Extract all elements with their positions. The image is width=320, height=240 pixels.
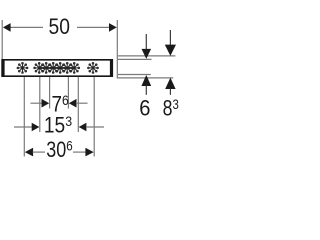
side view: bottom line L4 (8.3 lower reference) <box>118 77 173 79</box>
dimension 50: left extension line <box>1 20 3 59</box>
dimension 6: down arrowhead <box>142 49 152 59</box>
dimension 8.3: down arrowhead <box>165 45 176 56</box>
dimension 7.6: right arrowhead (points left) <box>69 99 77 108</box>
dimension 15.3: left tail line <box>14 126 32 128</box>
dimension 50: right arrowhead <box>109 23 117 32</box>
dimension 50: left arrowhead <box>3 23 11 32</box>
dimension 30.6: line right segment <box>73 151 86 153</box>
dimension 50: right extension line + side view left edge <box>116 20 118 79</box>
dimension 8.3: lower stem <box>169 89 171 95</box>
dimension 6: up arrowhead <box>141 75 151 86</box>
dimension 50: dimension line right segment <box>77 26 110 28</box>
svg-text:50: 50 <box>49 14 70 39</box>
dimension 7.6: left tail line <box>31 102 43 104</box>
perforation snowflakes <box>17 62 99 73</box>
side view: line L2 (6 upper reference) <box>118 58 152 60</box>
side view: top line L1 (8.3 upper reference) <box>118 55 175 57</box>
extension tick t3 (7.6 left) <box>49 77 51 109</box>
dimension 8.3: upper stem <box>169 30 171 45</box>
side view: line L3 (6 lower reference) <box>118 74 151 76</box>
dimension 15.3: right arrowhead (points left) <box>79 123 87 132</box>
svg-text:6: 6 <box>139 95 150 120</box>
dimension 6: upper stem <box>145 34 147 49</box>
extension tick t2 (15.3 left) <box>39 77 41 132</box>
dimension 30.6: right arrowhead (points right) <box>85 148 93 157</box>
dimension 50: dimension line left segment <box>10 26 43 28</box>
extension tick t4 (7.6 right) <box>67 77 69 109</box>
dimension 6: lower stem <box>145 86 147 95</box>
dimension 7.6: left arrowhead (points right) <box>42 99 50 108</box>
front view: channel rectangle <box>1 59 113 77</box>
dimension 8.3: up arrowhead <box>165 78 175 89</box>
dimension 7.6: right tail line <box>76 102 88 104</box>
dimension 15.3: right tail line <box>86 126 104 128</box>
extension tick t5 (15.3 right) <box>77 77 79 132</box>
extension tick t6 (30.6 right) <box>93 77 95 157</box>
dimension 15.3: left arrowhead (points right) <box>32 123 40 132</box>
dimension 30.6: left arrowhead (points left) <box>25 148 33 157</box>
dimension 30.6: line left segment <box>33 151 45 153</box>
extension tick t1 (30.6 left) <box>23 77 25 157</box>
